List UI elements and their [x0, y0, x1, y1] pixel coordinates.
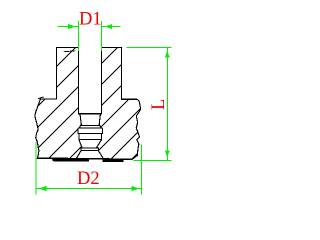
left shoulder sketch tick	[38, 97, 44, 99]
dimension D2 left arrow	[39, 186, 47, 191]
dimension D2 line	[36, 188, 142, 190]
dimension D2 extension lines	[36, 143, 142, 195]
dimension L top arrow	[165, 51, 170, 58]
dimension L bottom arrow	[165, 150, 170, 157]
insert fitting body (white)	[76, 114, 103, 159]
svg-text:D2: D2	[77, 169, 100, 189]
svg-text:L: L	[149, 99, 169, 110]
dimension D1 left arrow	[68, 24, 76, 29]
dimension D1 line	[58, 26, 121, 28]
dimension L bottom extension line	[134, 160, 172, 162]
dimension L line	[166, 48, 168, 161]
top edge sketch tick	[64, 51, 76, 52]
body cross-section left half outline	[35, 48, 82, 161]
lip bar right	[103, 160, 124, 163]
dimension D2 right arrow	[132, 186, 140, 191]
dimension D1 extension lines	[79, 21, 102, 51]
insert washer lines	[79, 125, 101, 128]
insert seat line	[78, 113, 101, 115]
bottom plane line	[89, 158, 103, 160]
lip thin line right	[124, 158, 133, 160]
insert neck ring lines	[81, 148, 99, 151]
dimension D1 right arrow	[105, 24, 113, 29]
lip bar left	[54, 159, 89, 162]
insert collar lines	[78, 134, 102, 140]
body cross-section left half hatch	[0, 39, 253, 167]
body cross-section right half hatch	[0, 39, 253, 167]
dimension L top extension line	[127, 47, 172, 49]
svg-text:D1: D1	[79, 9, 102, 29]
body cross-section right half outline	[97, 48, 141, 160]
